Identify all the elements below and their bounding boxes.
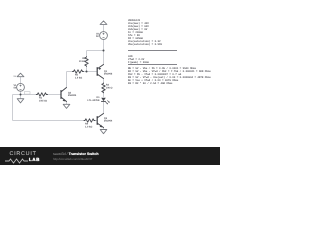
svg-text:100 kΩ: 100 kΩ [39,100,47,103]
svg-text:1.0 kΩ: 1.0 kΩ [75,77,82,80]
svg-text:2N3904: 2N3904 [68,94,77,97]
svg-text:5V: 5V [13,87,16,90]
svg-text:100 Ω: 100 Ω [106,87,113,90]
svg-text:5V: 5V [96,35,99,38]
svg-text:5V: 5V [14,75,17,78]
svg-text:10 kΩ: 10 kΩ [79,60,86,63]
svg-text:LTL-307EE: LTL-307EE [87,99,100,102]
svg-text:2N3906: 2N3906 [104,73,113,76]
svg-text:1.0 kΩ: 1.0 kΩ [85,126,92,129]
svg-text:2N3904: 2N3904 [104,120,113,123]
